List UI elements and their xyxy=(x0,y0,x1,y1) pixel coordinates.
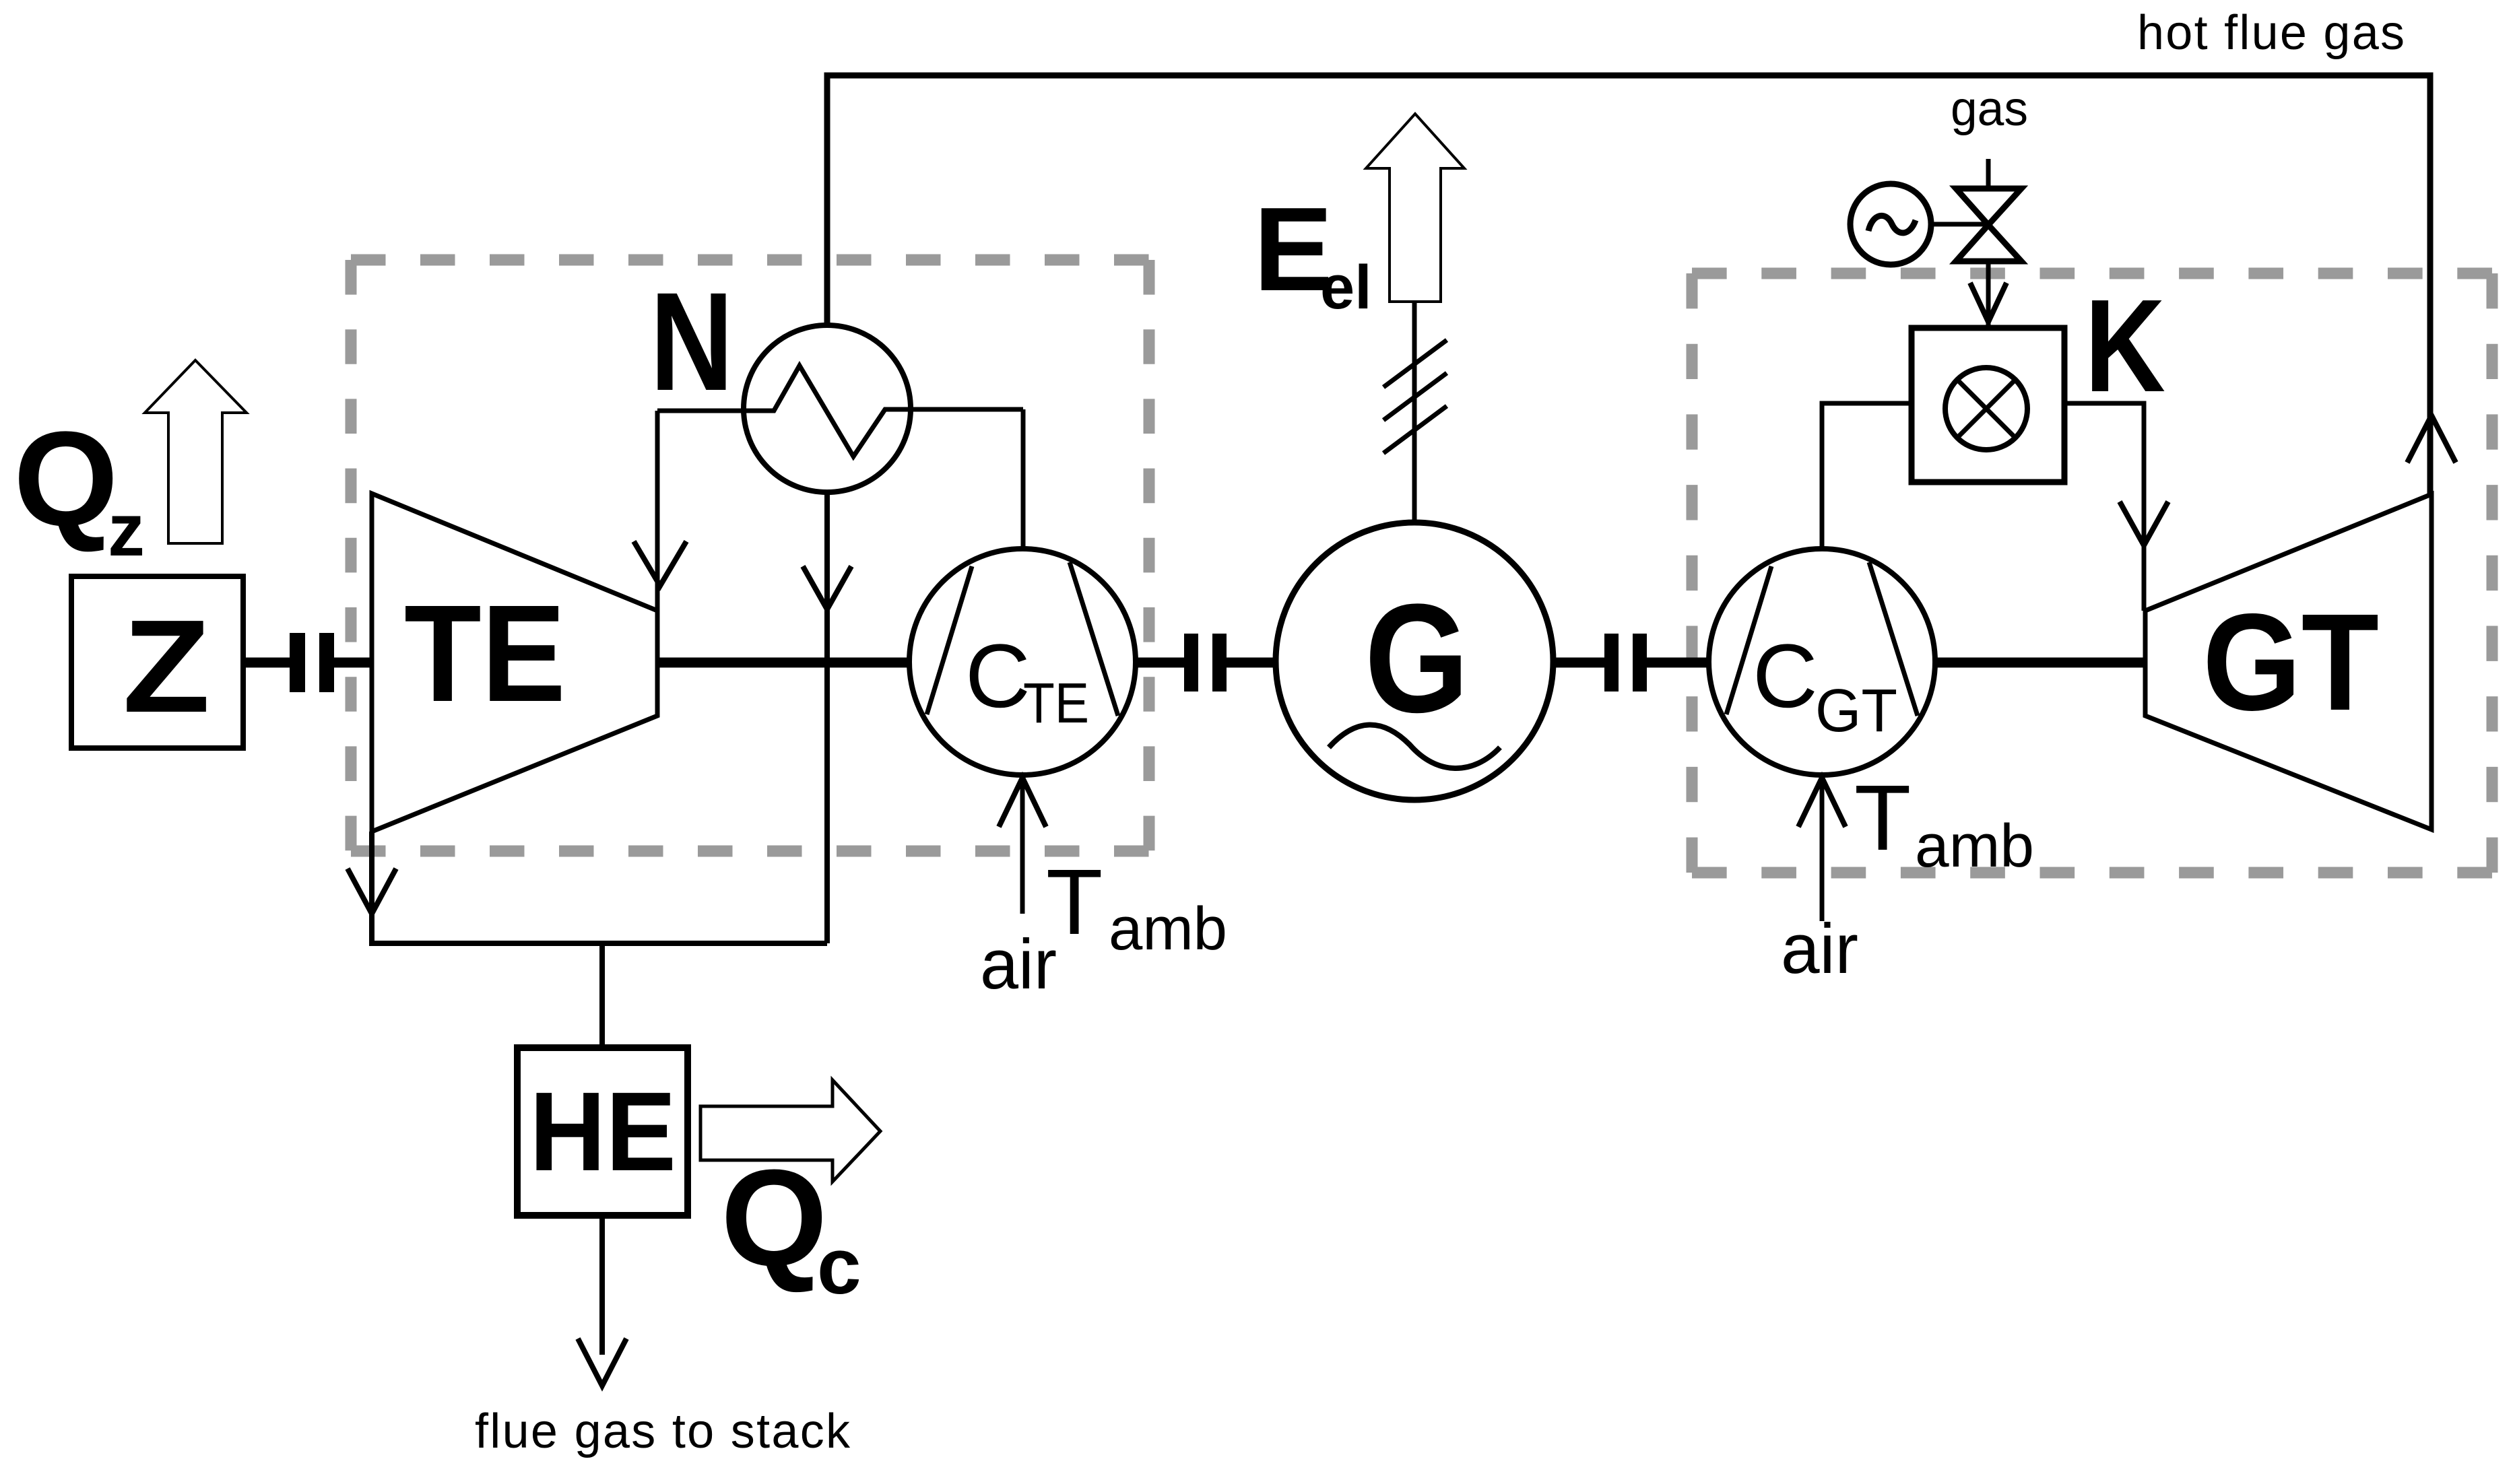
valve xyxy=(1956,189,2021,225)
dashed subsystem box GT xyxy=(1692,273,2492,873)
CGT chords xyxy=(1726,562,1918,716)
svg-text:TE: TE xyxy=(1023,671,1089,735)
arrow into GT xyxy=(2120,502,2168,545)
svg-text:K: K xyxy=(2085,272,2165,419)
wire header to HE xyxy=(599,943,605,1048)
wire N right loop down to CTE xyxy=(1021,409,1026,549)
svg-text:N: N xyxy=(650,264,733,420)
svg-text:amb: amb xyxy=(1915,813,2034,880)
CTE chords xyxy=(927,562,1118,716)
arrow TE exhaust xyxy=(348,869,396,914)
burner circle-X xyxy=(1945,368,2027,450)
air arrow into CGT xyxy=(1820,781,1825,921)
svg-text:T: T xyxy=(1854,766,1911,870)
coupling Z-TE bars xyxy=(290,633,305,692)
wire K left to CGT xyxy=(1822,403,1912,549)
svg-text:C: C xyxy=(965,626,1031,727)
valve actuator xyxy=(1850,184,1931,265)
arrow flue gas up xyxy=(2407,415,2456,463)
svg-text:C: C xyxy=(1753,626,1818,727)
shaft G to CGT with coupling xyxy=(1553,658,1709,668)
svg-text:air: air xyxy=(980,925,1057,1004)
shaft CTE to G with coupling xyxy=(1136,658,1276,668)
wire N left loop down to TE xyxy=(655,411,660,611)
turbine TE xyxy=(372,494,657,832)
svg-text:amb: amb xyxy=(1109,896,1227,963)
shaft TE to CTE xyxy=(657,658,909,668)
wire K right to GT xyxy=(2064,403,2144,611)
turbine GT xyxy=(2145,494,2432,830)
svg-text:G: G xyxy=(1365,572,1469,745)
dashed subsystem box TE xyxy=(351,260,1149,851)
svg-text:flue gas to stack: flue gas to stack xyxy=(475,1405,851,1458)
arrow Eel outline xyxy=(1366,114,1464,302)
heat exchanger N circle xyxy=(744,325,911,492)
svg-text:Q: Q xyxy=(721,1141,828,1295)
arrow valve to K xyxy=(1970,283,2006,322)
svg-text:GT: GT xyxy=(1815,677,1897,745)
svg-text:c: c xyxy=(817,1222,861,1311)
wire G to Eel xyxy=(1412,302,1417,522)
svg-text:el: el xyxy=(1320,253,1372,322)
boiler Z box xyxy=(71,576,243,748)
svg-text:air: air xyxy=(1781,910,1858,988)
air arrow into CTE xyxy=(1020,781,1025,914)
svg-text:GT: GT xyxy=(2202,585,2379,739)
shaft CGT to GT xyxy=(1935,658,2145,668)
svg-text:Z: Z xyxy=(123,593,210,740)
gas line xyxy=(1986,159,1991,189)
arrow to stack xyxy=(578,1339,626,1386)
wire valve to K xyxy=(1986,261,1991,328)
arrow Qz outline xyxy=(145,360,247,543)
shaft Z to TE xyxy=(243,658,372,668)
sine in G xyxy=(1329,724,1500,768)
wire N outlet down xyxy=(824,492,830,943)
heat exchanger HE box xyxy=(517,1048,688,1215)
svg-text:HE: HE xyxy=(529,1069,676,1194)
svg-text:hot flue gas: hot flue gas xyxy=(2137,6,2405,60)
generator G circle xyxy=(1276,522,1553,800)
svg-text:gas: gas xyxy=(1951,82,2028,136)
compressor CGT circle xyxy=(1709,549,1935,775)
arrow on N outlet xyxy=(803,566,851,609)
combustion chamber K box xyxy=(1912,328,2064,482)
svg-text:TE: TE xyxy=(404,576,566,731)
zigzag inside N xyxy=(657,366,1023,457)
compressor CTE circle xyxy=(909,549,1136,775)
arrow into TE xyxy=(634,541,686,586)
wire HE to stack xyxy=(599,1215,605,1355)
arrow Qc outline xyxy=(700,1080,880,1182)
slashes on electric line xyxy=(1383,340,1447,453)
svg-text:Q: Q xyxy=(13,404,119,554)
wire hot flue gas top line xyxy=(827,75,2430,494)
svg-text:z: z xyxy=(108,489,145,572)
wire TE exhaust down xyxy=(372,832,827,943)
